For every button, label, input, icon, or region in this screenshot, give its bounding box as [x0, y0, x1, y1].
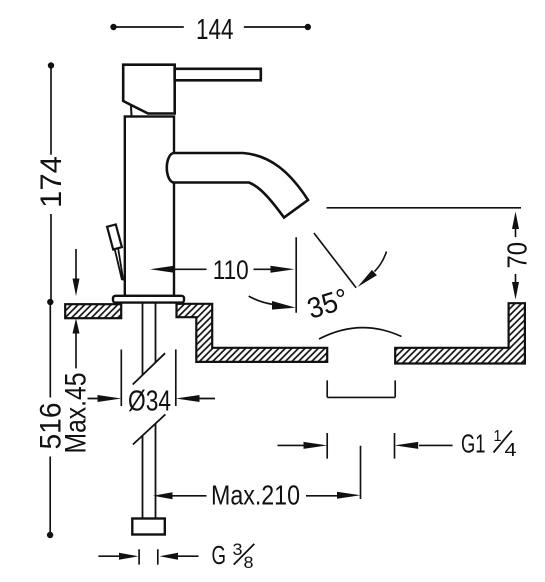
svg-text:174: 174 — [35, 156, 68, 208]
svg-text:Max.45: Max.45 — [60, 373, 93, 454]
svg-text:8: 8 — [244, 553, 254, 572]
svg-text:Ø34: Ø34 — [128, 386, 171, 418]
svg-text:Max.210: Max.210 — [211, 480, 300, 511]
svg-text:G1: G1 — [461, 429, 486, 459]
svg-text:144: 144 — [196, 14, 234, 46]
svg-text:1: 1 — [494, 428, 502, 445]
svg-text:G: G — [212, 540, 227, 570]
svg-text:70: 70 — [502, 242, 533, 269]
svg-text:110: 110 — [213, 255, 249, 285]
svg-text:4: 4 — [505, 440, 517, 460]
